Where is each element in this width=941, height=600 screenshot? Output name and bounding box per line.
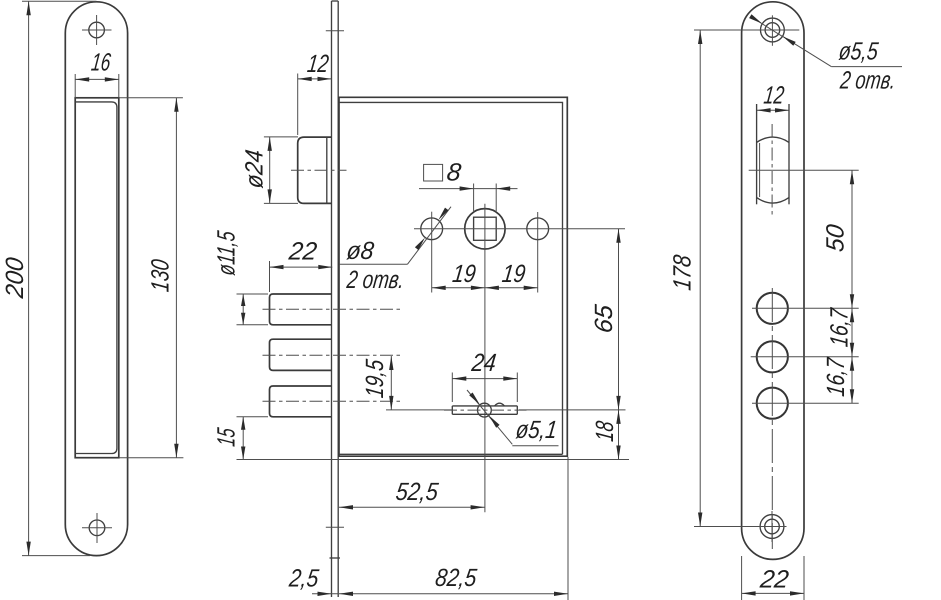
svg-text:19: 19 bbox=[451, 260, 477, 288]
fixing hole 3 centerline bbox=[752, 402, 859, 404]
dimension 16,7 lower bbox=[822, 356, 854, 404]
svg-text:22: 22 bbox=[758, 566, 790, 594]
svg-text:18: 18 bbox=[591, 420, 619, 443]
svg-text:65: 65 bbox=[590, 302, 618, 334]
dimension 15 bbox=[213, 417, 268, 460]
svg-text:24: 24 bbox=[469, 349, 497, 377]
lock body outer case bbox=[339, 97, 567, 456]
dimension 16 bbox=[75, 49, 119, 98]
svg-text:8: 8 bbox=[445, 159, 462, 187]
svg-text:ø11,5: ø11,5 bbox=[213, 229, 241, 277]
deadbolt pin 2 centerline bbox=[263, 354, 403, 356]
svg-text:22: 22 bbox=[287, 238, 319, 266]
faceplate outline bbox=[742, 2, 804, 560]
latch bolt front view bbox=[757, 124, 789, 215]
svg-text:52,5: 52,5 bbox=[394, 478, 440, 506]
dimension 2,5 bbox=[287, 565, 338, 596]
dimension 18 bbox=[591, 410, 621, 460]
svg-text:12: 12 bbox=[306, 50, 330, 78]
svg-text:2 отв.: 2 отв. bbox=[838, 67, 897, 95]
svg-text:130: 130 bbox=[146, 258, 174, 293]
deadbolt pin 2 bbox=[270, 339, 332, 370]
svg-text:19: 19 bbox=[501, 260, 527, 288]
leader ø5,1 bbox=[467, 390, 559, 446]
deadbolt pin 1 centerline bbox=[263, 308, 403, 310]
dimension ø24 (latch bolt) bbox=[241, 137, 298, 204]
strike plate outline bbox=[65, 2, 127, 556]
strike plate bottom screw hole bbox=[82, 513, 112, 543]
bottom bracket strip bbox=[452, 403, 517, 414]
svg-text:178: 178 bbox=[668, 253, 696, 291]
dimension 19,5 bbox=[361, 356, 452, 410]
fixing hole 2 bbox=[757, 341, 788, 372]
svg-text:16,7: 16,7 bbox=[826, 306, 854, 348]
hole ø8 right bbox=[527, 218, 549, 240]
dimension 22 (pin protrusion) bbox=[270, 238, 333, 292]
svg-text:2,5: 2,5 bbox=[287, 565, 321, 593]
dimension 200 bbox=[1, 1, 96, 555]
faceplate top screw hole bbox=[749, 15, 799, 46]
deadbolt pin 1 bbox=[270, 294, 332, 325]
dimension 82,5 bbox=[339, 564, 568, 596]
dimension 12 (latch cutout) bbox=[757, 82, 789, 113]
dimension 130 bbox=[119, 98, 184, 458]
faceplate bottom screw hole bbox=[760, 511, 784, 542]
vertical centerline spindle bbox=[484, 204, 486, 513]
bottom extension line (15 / 18 datum) bbox=[237, 459, 630, 461]
dimension 12 (latch protrusion) bbox=[298, 50, 332, 135]
leader ø8 2 otv. bbox=[339, 207, 451, 294]
bracket centerline bbox=[444, 409, 527, 411]
leader ø5,5 2 otv. bbox=[749, 14, 902, 94]
latch cutout edges bbox=[756, 104, 758, 204]
dimension 19 19 bbox=[432, 260, 538, 290]
vertical centerline right hole bbox=[537, 212, 539, 293]
faceplate edge-on strip bbox=[326, 1, 344, 597]
dimension 16,7 upper bbox=[826, 306, 855, 357]
latch centerline (50 datum) bbox=[749, 169, 859, 171]
svg-text:ø8: ø8 bbox=[345, 237, 375, 265]
fixing hole 2 centerline bbox=[751, 356, 859, 358]
spindle hub circle bbox=[465, 209, 505, 249]
square symbol label bbox=[424, 159, 463, 187]
svg-text:50: 50 bbox=[822, 223, 850, 253]
dimension 52,5 bbox=[339, 478, 485, 509]
dimension 8 (square width) bbox=[419, 184, 518, 212]
svg-text:ø5,5: ø5,5 bbox=[837, 38, 880, 66]
body right edge extension bbox=[567, 457, 569, 600]
dimension 50 bbox=[822, 170, 855, 308]
vertical centerline through holes bbox=[771, 288, 773, 549]
svg-text:12: 12 bbox=[762, 82, 785, 110]
dimension 65 bbox=[519, 229, 626, 410]
dimension 22 (faceplate width) bbox=[742, 556, 804, 600]
svg-text:200: 200 bbox=[1, 256, 29, 300]
lock body inner lid line bbox=[339, 102, 563, 454]
svg-text:15: 15 bbox=[213, 426, 241, 448]
horizontal centerline through holes (65 datum) bbox=[414, 228, 625, 230]
hole ø5,1 bbox=[478, 403, 492, 417]
latch bolt side view bbox=[291, 137, 347, 203]
dimension ø11,5 (pin diameter) bbox=[213, 229, 268, 325]
deadbolt pin 3 bbox=[270, 386, 332, 417]
vertical centerline left hole bbox=[431, 212, 433, 293]
svg-text:2 отв.: 2 отв. bbox=[345, 266, 406, 294]
deadbolt pin 3 centerline bbox=[263, 400, 403, 402]
fixing hole 1 centerline bbox=[752, 307, 859, 309]
spindle square hole bbox=[474, 217, 497, 240]
strike plate slot inner flange bbox=[75, 102, 117, 454]
fixing hole 3 bbox=[757, 388, 788, 419]
svg-text:82,5: 82,5 bbox=[434, 564, 479, 592]
dimension 178 bbox=[668, 30, 786, 527]
svg-text:ø5,1: ø5,1 bbox=[514, 416, 558, 444]
strike plate slot outline bbox=[75, 98, 119, 458]
svg-text:16,7: 16,7 bbox=[822, 356, 850, 398]
strike plate top screw hole bbox=[82, 15, 112, 45]
fixing hole 1 bbox=[757, 293, 788, 324]
svg-text:19,5: 19,5 bbox=[361, 357, 389, 399]
svg-text:16: 16 bbox=[90, 49, 112, 77]
dimension 24 (bracket) bbox=[452, 349, 517, 402]
svg-text:ø24: ø24 bbox=[241, 148, 269, 189]
hole ø8 left bbox=[421, 218, 443, 240]
